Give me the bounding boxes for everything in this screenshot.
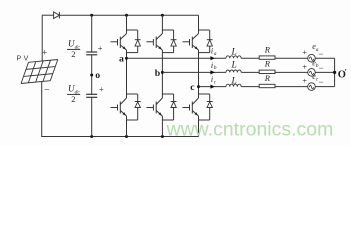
- label i_b: [211, 61, 217, 71]
- svg-text:−: −: [44, 85, 50, 96]
- svg-text:a: a: [214, 51, 217, 57]
- svg-text:′: ′: [345, 68, 347, 77]
- label e_b: [312, 58, 319, 69]
- svg-text:+: +: [302, 47, 307, 57]
- wire (resistor to source, phase c): [275, 86, 308, 88]
- wire (leg c midpoint): [198, 53, 200, 94]
- transistor Q3 (upper IGBT leg b): [146, 30, 162, 53]
- transistor Q1 (upper IGBT leg a): [111, 30, 127, 53]
- junction (bottom rail / C2): [90, 135, 93, 138]
- svg-text:i: i: [211, 61, 213, 70]
- diode D (blocking diode on + rail): [54, 12, 60, 19]
- junction (top rail / leg b): [161, 14, 164, 17]
- diode D5 (antiparallel, upper leg c): [199, 30, 213, 53]
- svg-text:−: −: [319, 77, 324, 87]
- svg-text:+: +: [302, 76, 307, 86]
- wire (leg a midpoint): [126, 53, 128, 94]
- current arrow i_a: [210, 56, 215, 60]
- svg-text:PV: PV: [17, 55, 31, 62]
- svg-text:c: c: [190, 82, 195, 93]
- svg-text:2: 2: [71, 49, 75, 59]
- inductor L (phase c): [226, 84, 241, 86]
- PV array panel: [21, 60, 58, 84]
- label e_c: [312, 72, 319, 83]
- wire (phase b line): [162, 71, 226, 73]
- svg-text:L: L: [231, 60, 237, 70]
- diode D3 (antiparallel, upper leg b): [162, 30, 176, 53]
- resistor R (phase c): [259, 84, 275, 87]
- svg-text:+: +: [98, 43, 103, 53]
- wire (phase c line): [199, 86, 227, 88]
- label i_c: [211, 75, 217, 85]
- wire (resistor to source, phase b): [275, 71, 308, 73]
- svg-text:2: 2: [71, 94, 75, 104]
- wire (C1 to node o): [91, 55, 93, 95]
- node o (DC midpoint): [90, 74, 93, 77]
- junction (bottom rail / leg b): [161, 135, 164, 138]
- wire (top rail to a-leg upper collector): [126, 15, 128, 30]
- current arrow i_b: [210, 70, 215, 74]
- svg-text:R: R: [264, 73, 271, 83]
- svg-text:o: o: [95, 70, 100, 81]
- wire (source to neutral bus, phase b): [315, 71, 334, 73]
- wire (a-leg lower emitter to bottom rail): [126, 120, 128, 137]
- diode D1 (antiparallel, upper leg a): [127, 30, 141, 53]
- junction (top rail / leg a): [125, 14, 128, 17]
- transistor Q2 (lower IGBT leg a): [111, 94, 127, 120]
- label e_a: [312, 42, 319, 53]
- node b: [161, 71, 164, 74]
- svg-text:−: −: [319, 49, 324, 59]
- inductor L (phase b): [226, 70, 241, 72]
- node a: [125, 57, 128, 60]
- svg-text:L: L: [231, 48, 237, 58]
- svg-text:L: L: [231, 77, 237, 87]
- wire (top rail to b-leg upper collector): [161, 15, 163, 30]
- label Udc/2 (lower): [67, 84, 80, 104]
- svg-text:b: b: [214, 65, 217, 71]
- capacitor C1 (upper DC-link): [86, 52, 97, 55]
- svg-text:+: +: [42, 47, 47, 57]
- svg-text:R: R: [264, 44, 271, 54]
- svg-text:−: −: [319, 63, 324, 73]
- svg-text:www.cntronics.com: www.cntronics.com: [166, 119, 334, 141]
- wire (negative DC rail, bottom): [41, 136, 198, 138]
- svg-text:a: a: [119, 54, 124, 65]
- junction (bottom rail / leg a): [125, 135, 128, 138]
- diode D2 (antiparallel, lower leg a): [127, 94, 141, 120]
- transistor Q6 (lower IGBT leg c): [183, 94, 199, 120]
- AC source e_c: [308, 83, 316, 91]
- inductor L (phase a): [226, 56, 241, 58]
- wire (positive DC rail, top): [42, 14, 199, 16]
- resistor R (phase b): [259, 70, 275, 73]
- wire (C2 to bottom rail): [91, 97, 93, 136]
- capacitor C2 (lower DC-link): [86, 94, 97, 97]
- svg-text:+: +: [302, 61, 307, 71]
- current arrow i_c: [210, 85, 215, 89]
- wire (resistor to source, phase a): [275, 57, 308, 59]
- wire (b-leg lower emitter to bottom rail): [161, 120, 163, 137]
- wire (leg b midpoint): [161, 53, 163, 94]
- svg-text:b: b: [155, 68, 161, 79]
- wire (coil to resistor, phase a): [241, 57, 259, 59]
- wire (PV positive lead): [41, 15, 43, 60]
- wire (top rail to c-leg upper collector): [198, 15, 200, 30]
- svg-text:+: +: [99, 84, 104, 94]
- wire (top rail to C1): [91, 15, 93, 52]
- svg-text:i: i: [211, 75, 213, 84]
- wire (coil to resistor, phase c): [241, 86, 259, 88]
- node O' (neutral point): [333, 71, 336, 74]
- wire (PV negative lead): [41, 82, 43, 137]
- resistor R (phase a): [259, 56, 275, 59]
- AC source e_a: [308, 54, 316, 62]
- wire (neutral bus): [334, 58, 336, 86]
- transistor Q4 (lower IGBT leg b): [146, 94, 162, 120]
- node c: [197, 85, 200, 88]
- label i_a: [211, 47, 217, 57]
- wire (c-leg lower emitter to bottom rail): [198, 120, 200, 137]
- svg-text:i: i: [211, 47, 213, 56]
- label O': [338, 68, 347, 81]
- junction (top rail / C1): [90, 14, 93, 17]
- wire (source to neutral bus, phase c): [315, 86, 334, 88]
- diode D4 (antiparallel, lower leg b): [162, 94, 176, 120]
- label Udc/2 (upper): [67, 39, 80, 59]
- AC source e_b: [308, 69, 316, 77]
- svg-text:R: R: [264, 59, 271, 69]
- transistor Q5 (upper IGBT leg c): [183, 30, 199, 53]
- wire (source to neutral bus, phase a): [315, 57, 334, 59]
- diode D6 (antiparallel, lower leg c): [199, 94, 213, 120]
- wire (phase a line): [127, 57, 227, 59]
- wire (coil to resistor, phase b): [241, 71, 259, 73]
